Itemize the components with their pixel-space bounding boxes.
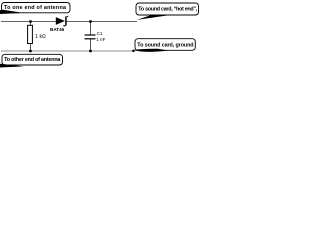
callout tail bottom-right [134, 49, 168, 52]
wire top net: diode cathode to hot end [66, 21, 137, 23]
wire capacitor bottom stub [90, 39, 92, 51]
callout box: To sound card hot end [136, 3, 199, 15]
callout box: To sound card ground [135, 39, 195, 51]
svg-text:1 nF: 1 nF [96, 37, 105, 42]
svg-text:To other end of antenna: To other end of antenna [4, 57, 61, 63]
svg-text:1 kΩ: 1 kΩ [35, 34, 46, 40]
diode D1 BAT46 triangle [56, 17, 65, 25]
callout tail top-right [137, 15, 172, 20]
svg-text:C1: C1 [97, 31, 103, 36]
diode D1 schottky cathode bar [63, 16, 68, 27]
wire resistor bottom stub [30, 44, 32, 52]
node junction C1 top [89, 20, 92, 23]
wire top net: antenna to diode anode [1, 21, 56, 23]
node junction R1 bottom [29, 50, 32, 53]
callout tail bottom-left [0, 64, 24, 68]
svg-text:To sound card, “hot end”,: To sound card, “hot end”, [138, 6, 198, 12]
node ground rail end [132, 50, 135, 53]
resistor R (1 kOhm) body [28, 25, 33, 43]
wire capacitor top stub [90, 21, 92, 35]
node junction R1 top [29, 20, 32, 23]
node junction C1 bottom [89, 50, 92, 53]
svg-text:To one end of antenna: To one end of antenna [4, 5, 67, 11]
capacitor C1 top plate [85, 34, 96, 36]
wire bottom net: ground rail [1, 50, 134, 52]
svg-text:BAT46: BAT46 [50, 27, 65, 32]
callout box: To one end of antenna [2, 3, 71, 13]
callout tail top-left [0, 10, 23, 14]
capacitor C1 bottom plate [85, 38, 96, 40]
callout box: To other end of antenna [2, 54, 63, 65]
svg-text:To sound card, ground: To sound card, ground [137, 42, 193, 48]
wire resistor top stub [30, 21, 32, 25]
